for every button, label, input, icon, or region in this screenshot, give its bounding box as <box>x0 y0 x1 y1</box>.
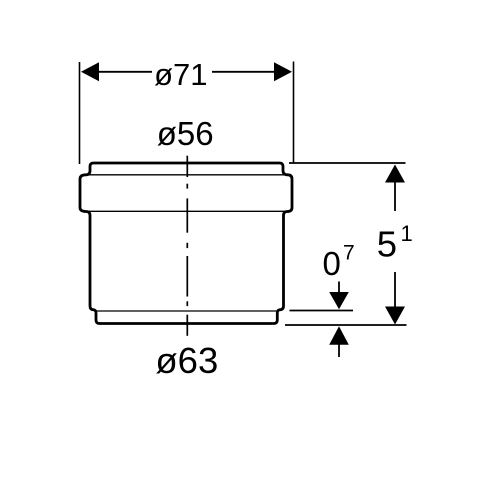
svg-text:ø63: ø63 <box>155 340 218 381</box>
svg-text:ø56: ø56 <box>157 115 214 152</box>
svg-text:0: 0 <box>323 245 341 282</box>
svg-text:7: 7 <box>343 242 355 265</box>
svg-text:5: 5 <box>377 224 397 265</box>
svg-text:1: 1 <box>401 221 413 246</box>
svg-text:ø71: ø71 <box>154 57 207 92</box>
